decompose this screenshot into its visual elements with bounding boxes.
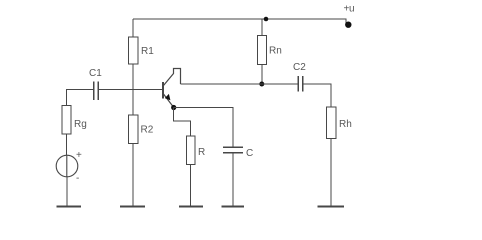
wire R1 top (rail to R1)	[132, 19, 134, 37]
wire C2 to Rh	[303, 84, 331, 107]
capacitor C	[223, 147, 253, 159]
label +u	[344, 4, 355, 15]
svg-text:Rn: Rn	[269, 46, 282, 57]
resistor R2	[129, 115, 154, 144]
wire node to C2	[262, 83, 298, 85]
wire emitter node to C	[174, 108, 233, 148]
svg-text:+u: +u	[344, 4, 355, 15]
transistor Q1 emitter lead with arrow	[164, 94, 173, 107]
wire collector to node	[181, 83, 262, 85]
svg-text:C: C	[246, 148, 253, 159]
wire rail to Rn	[261, 19, 263, 36]
resistor R	[186, 136, 205, 165]
junction dot top rail / Rn	[264, 17, 269, 22]
ground (C branch)	[222, 205, 245, 207]
wire Rg to source	[66, 134, 68, 156]
svg-text:C2: C2	[293, 62, 306, 73]
wire source to ground	[66, 177, 68, 206]
wire top supply rail	[133, 19, 346, 24]
wire input left segment (Rg corner to C1)	[67, 90, 94, 106]
resistor R1	[129, 37, 155, 64]
ground (R branch)	[179, 205, 203, 207]
wire base node to R2	[132, 90, 134, 116]
resistor Rg	[62, 106, 87, 135]
wire R1 bottom to base node	[132, 64, 134, 90]
wire R to ground	[190, 165, 192, 206]
svg-text:C1: C1	[89, 68, 102, 79]
resistor Rn	[257, 36, 281, 65]
capacitor C1	[89, 68, 102, 100]
transistor Q1 collector lead	[164, 69, 181, 86]
svg-text:+: +	[76, 150, 82, 161]
ground (source branch)	[57, 205, 82, 207]
junction dot collector node	[259, 82, 264, 87]
wire Rh to ground	[330, 139, 332, 206]
terminal +u	[345, 22, 351, 28]
junction dot emitter node	[171, 105, 176, 110]
wire emitter node down-right to R	[174, 108, 191, 137]
ground (R2 branch)	[120, 205, 145, 207]
source G1 (AC source with polarity)	[56, 150, 82, 184]
resistor Rh	[326, 107, 351, 139]
wire C to ground	[232, 153, 234, 206]
wire R2 bottom to ground	[132, 144, 134, 206]
wire Rn to collector node	[261, 65, 263, 85]
capacitor C2	[293, 62, 306, 92]
ground (Rh branch)	[318, 205, 345, 207]
svg-text:R1: R1	[141, 46, 154, 57]
svg-text:-: -	[76, 173, 79, 184]
wire C1 to base	[98, 89, 162, 91]
svg-text:R2: R2	[141, 125, 154, 136]
svg-text:Rh: Rh	[339, 119, 352, 130]
svg-text:Rg: Rg	[74, 119, 87, 130]
svg-text:R: R	[198, 147, 205, 158]
transistor Q1 base bar	[162, 82, 164, 99]
